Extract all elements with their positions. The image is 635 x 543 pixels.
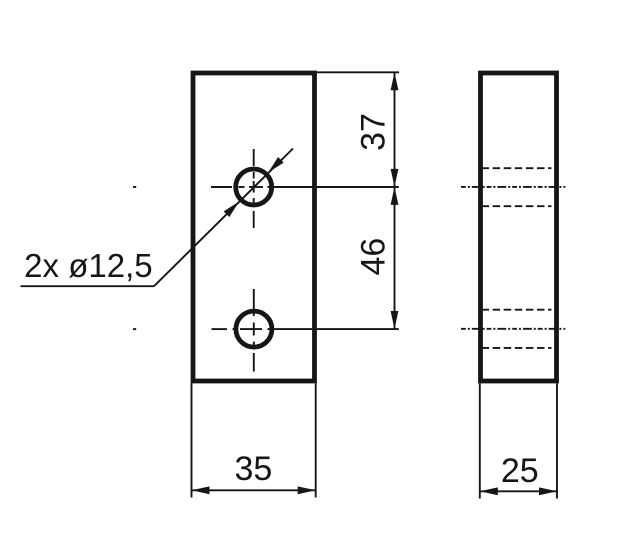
leader underline for hole note [21, 285, 155, 287]
arrow 46 bottom [391, 311, 399, 329]
arrow 37 bottom [391, 169, 399, 187]
extension line below plate left [191, 384, 193, 498]
leader arrow lower-left of H1 [224, 202, 240, 218]
hidden line H2 top [482, 309, 552, 311]
hole H2 horizontal centerline [133, 328, 262, 330]
hidden line H1 top [482, 167, 552, 169]
svg-text:2x ø12,5: 2x ø12,5 [24, 247, 153, 284]
hidden line H1 bottom [482, 205, 552, 207]
hole H2 circle [236, 311, 272, 347]
dimension line 37 [394, 72, 396, 187]
hole H1 horizontal centerline [133, 186, 263, 188]
extension line from H1 center to dimension [268, 186, 399, 188]
svg-text:35: 35 [234, 450, 272, 488]
leader diagonal line [154, 149, 293, 287]
extension line top right of plate [313, 71, 399, 73]
front view plate outline [193, 73, 315, 381]
extension line from H2 center to dimension [268, 328, 399, 330]
arrow 46 top [391, 187, 399, 205]
arrow 35 left [192, 486, 210, 494]
arrow 25 right [539, 487, 557, 495]
arrow 35 right [298, 486, 316, 494]
dimension line 46 [394, 187, 396, 329]
hole H1 circle [236, 169, 272, 205]
dimension line 25 [480, 490, 557, 492]
hole H2 vertical centerline [253, 289, 255, 372]
svg-text:37: 37 [355, 113, 393, 151]
dimension line 35 [192, 489, 316, 491]
extension line below plate right [315, 384, 317, 498]
svg-text:25: 25 [501, 452, 539, 490]
side view H1 centerline [461, 186, 565, 188]
arrow 25 left [480, 487, 498, 495]
hidden line H2 bottom [482, 347, 552, 349]
arrow 37 top [391, 72, 399, 90]
extension line below side view right [556, 384, 558, 499]
hole H1 vertical centerline [253, 149, 255, 228]
leader arrow upper-right of H1 [268, 157, 284, 173]
side view H2 centerline [461, 328, 565, 330]
svg-text:46: 46 [355, 238, 393, 276]
extension line below side view left [479, 384, 481, 499]
side view plate outline [481, 73, 557, 381]
